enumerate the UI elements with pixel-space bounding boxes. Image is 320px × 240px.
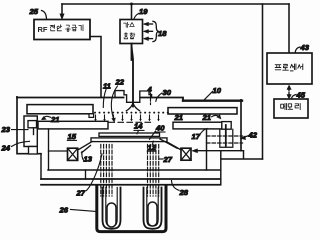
- svg-text:30: 30: [163, 88, 172, 97]
- wire: gas line from bus to mixer: [131, 4, 133, 20]
- gas flare right: [133, 103, 140, 111]
- label 14: [134, 122, 144, 134]
- label 42: [240, 131, 258, 140]
- svg-text:23: 23: [1, 125, 11, 134]
- outer wall left lower: [40, 154, 42, 179]
- wire: top control bus: [62, 3, 289, 5]
- label 4: [147, 85, 153, 105]
- box: RF power supply U25: [34, 20, 90, 40]
- gas pipe into chamber: [132, 44, 134, 107]
- door assembly outer: [24, 116, 37, 147]
- svg-text:4: 4: [147, 85, 153, 94]
- inner wall right of pedestal: [206, 129, 208, 170]
- svg-text:14: 14: [134, 122, 143, 131]
- shield bar lower-right: [173, 122, 222, 129]
- gas inlet arrows: [144, 22, 153, 40]
- label 40: [150, 124, 166, 140]
- node: junction at gas line tee: [130, 3, 133, 6]
- label 11: [103, 82, 111, 108]
- duct right lower: [167, 142, 181, 150]
- svg-text:21: 21: [202, 113, 211, 122]
- inner wall left: [48, 129, 50, 170]
- svg-text:19: 19: [139, 7, 148, 16]
- chamber lid left: [17, 97, 124, 99]
- svg-text:13: 13: [84, 155, 93, 164]
- label 19: [134, 7, 148, 19]
- bellows tube left outer: [103, 188, 121, 229]
- throttle dashed lines: [207, 136, 243, 143]
- label 27 bottom: [76, 154, 103, 198]
- step under pedestal: [85, 170, 87, 179]
- box: gas mixer: [120, 20, 143, 44]
- baffle bar right: [168, 108, 237, 114]
- wire: drop to RF supply with arrow: [60, 4, 64, 19]
- lift shafts left hatch: [101, 145, 112, 197]
- svg-text:21: 21: [50, 115, 59, 124]
- svg-text:15: 15: [68, 132, 77, 141]
- svg-text:45: 45: [296, 91, 306, 100]
- label 25: [29, 7, 47, 19]
- label 43: [295, 43, 310, 53]
- lift shafts right hatch: [148, 145, 159, 197]
- gas flare left: [126, 103, 133, 111]
- label 21 right with arrow: [202, 113, 222, 122]
- box: memory: [274, 99, 308, 118]
- label 30: [156, 88, 172, 101]
- outer floor lower: [41, 184, 221, 186]
- brace for gas inlets: [153, 21, 159, 41]
- chamber right wall: [240, 100, 242, 151]
- svg-text:26: 26: [59, 206, 69, 215]
- hook 13: [82, 152, 84, 161]
- bellows tube right inner: [147, 188, 158, 227]
- inner floor: [48, 169, 221, 171]
- door lower box: [29, 147, 38, 155]
- svg-text:17: 17: [192, 132, 201, 141]
- gas flow ticks: [96, 115, 159, 120]
- label 22: [111, 78, 124, 123]
- label 23: [1, 125, 29, 134]
- label 15: [67, 132, 76, 141]
- label 28: [172, 181, 189, 197]
- throttle pin: [225, 125, 227, 146]
- dashed link processor-memory: [287, 85, 291, 99]
- bellows tube left inner: [106, 188, 117, 227]
- wafer: [99, 133, 160, 136]
- label 10: [204, 86, 222, 100]
- svg-text:21: 21: [174, 113, 183, 122]
- chamber lid right: [141, 98, 183, 101]
- svg-text:RF: RF: [38, 25, 48, 34]
- duct left upper: [77, 142, 92, 150]
- throttle duct walls: [220, 129, 233, 147]
- svg-text:28: 28: [179, 188, 189, 197]
- label 45: [292, 91, 306, 100]
- throttle line with arrow: [192, 149, 244, 153]
- label 21 left with arrow: [42, 115, 60, 124]
- bellows housing: [97, 186, 166, 232]
- wire: drop to processor: [288, 4, 290, 53]
- svg-text:42: 42: [248, 131, 258, 140]
- plasma dash row: [109, 121, 151, 123]
- shield end box: [222, 122, 231, 130]
- svg-text:25: 25: [29, 7, 39, 16]
- label 27 right: [160, 155, 173, 164]
- label 17: [192, 129, 208, 142]
- label 12: [147, 141, 156, 152]
- svg-text:27: 27: [76, 189, 86, 198]
- bellows capsule right: [148, 202, 157, 226]
- svg-text:27: 27: [163, 155, 173, 164]
- baffle bar left: [27, 105, 93, 114]
- duct left lower: [82, 146, 91, 153]
- svg-text:40: 40: [155, 124, 165, 133]
- svg-text:18: 18: [158, 29, 167, 38]
- label 26: [59, 206, 98, 215]
- outer floor upper: [41, 178, 221, 180]
- stair right: [221, 151, 263, 185]
- valve right (X): [181, 148, 191, 160]
- svg-text:22: 22: [115, 78, 125, 87]
- svg-text:24: 24: [1, 144, 11, 153]
- duct to left valve: [49, 150, 68, 152]
- valve left (X): [68, 148, 78, 160]
- svg-text:11: 11: [103, 82, 111, 91]
- pedestal plate: [91, 138, 167, 142]
- label 24: [1, 141, 30, 152]
- shield bar lower-left: [38, 121, 108, 129]
- svg-text:43: 43: [300, 43, 310, 52]
- box: processor: [267, 53, 312, 84]
- bellows capsule left: [107, 203, 116, 227]
- chamber left wall: [17, 97, 41, 154]
- bellows tube right outer: [144, 188, 162, 229]
- showerhead holes: [94, 112, 169, 114]
- svg-text:10: 10: [213, 86, 222, 95]
- baffle bar left end lip: [89, 114, 94, 118]
- lid inlet fixture: [115, 91, 152, 103]
- door small box: [28, 121, 37, 128]
- wire: right side control line to throttle: [262, 4, 264, 159]
- duct right upper: [160, 139, 177, 148]
- lid right thick section: [183, 99, 242, 101]
- wire: RF output to top electrode: [90, 37, 101, 98]
- door pin: [33, 128, 35, 135]
